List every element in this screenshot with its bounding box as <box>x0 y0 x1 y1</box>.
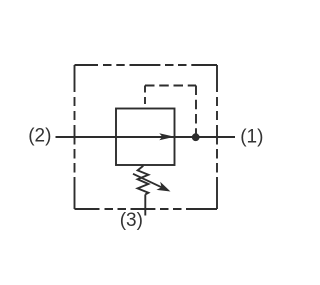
svg-text:(3): (3) <box>120 210 143 231</box>
svg-text:(1): (1) <box>240 127 263 148</box>
svg-text:(2): (2) <box>28 126 51 147</box>
